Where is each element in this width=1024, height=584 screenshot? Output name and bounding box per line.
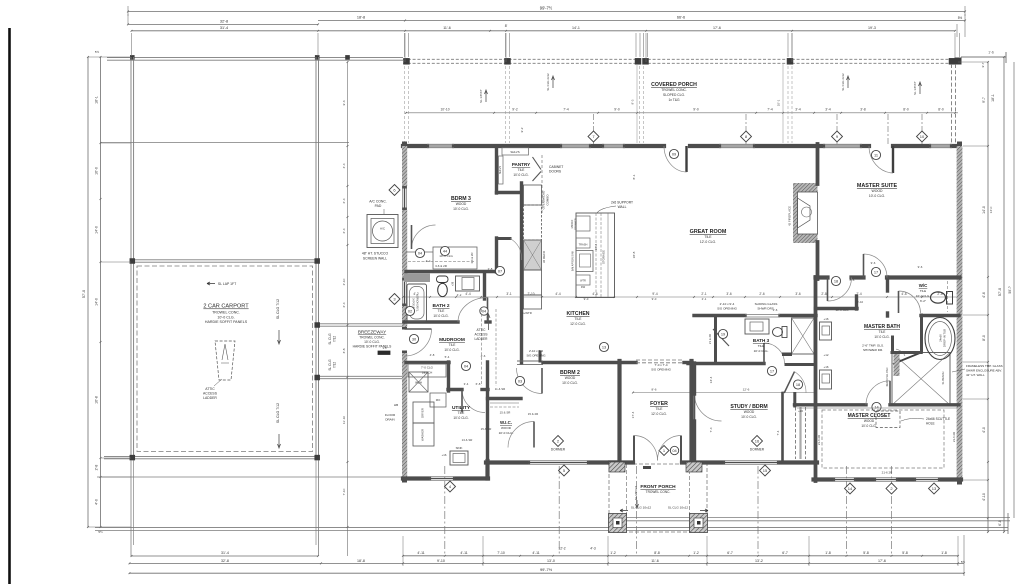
svg-text:TILE: TILE xyxy=(879,330,886,334)
svg-text:3'-4: 3'-4 xyxy=(825,108,831,112)
top dim row 2 xyxy=(318,20,405,22)
porch roof dashed edge xyxy=(403,58,958,60)
eave line B xyxy=(612,520,1010,522)
svg-text:6'-8: 6'-8 xyxy=(998,520,1002,526)
svg-text:WOOD: WOOD xyxy=(456,202,467,206)
svg-text:21 & 2R: 21 & 2R xyxy=(708,334,712,344)
left slab line xyxy=(97,476,403,478)
dash-dot window centerlines top xyxy=(593,114,595,146)
svg-text:8': 8' xyxy=(505,24,508,28)
svg-text:10'-0 CLG.: 10'-0 CLG. xyxy=(562,381,578,385)
bottom extension stubs xyxy=(402,536,404,566)
svg-text:TUB/SHOWER: TUB/SHOWER xyxy=(417,294,420,311)
svg-text:+16: +16 xyxy=(798,409,803,413)
breezeway step marker xyxy=(378,351,390,355)
carport roof top edge xyxy=(107,57,403,59)
svg-text:1'-6: 1'-6 xyxy=(988,51,994,55)
svg-text:SL CLG: SL CLG xyxy=(328,359,332,371)
svg-text:10'-0 CLG.: 10'-0 CLG. xyxy=(499,431,514,435)
svg-text:1'-8: 1'-8 xyxy=(941,551,947,555)
svg-text:3-6 & 2R: 3-6 & 2R xyxy=(435,264,448,268)
svg-text:TILE: TILE xyxy=(704,235,712,239)
svg-text:18'-8: 18'-8 xyxy=(357,559,365,563)
svg-text:19'-3: 19'-3 xyxy=(868,26,876,30)
bdrm2 door xyxy=(517,368,543,394)
svg-text:31'-4: 31'-4 xyxy=(221,551,229,555)
svg-text:3'-6: 3'-6 xyxy=(726,292,731,296)
svg-text:6'-7: 6'-7 xyxy=(727,551,733,555)
svg-text:4'-4: 4'-4 xyxy=(465,292,470,296)
svg-text:3'-1: 3'-1 xyxy=(506,292,511,296)
utility appliances xyxy=(413,402,434,423)
svg-text:4'-11: 4'-11 xyxy=(460,551,467,555)
svg-text:TILE: TILE xyxy=(575,317,583,321)
top dim row overall xyxy=(128,11,965,13)
svg-text:99'-7½: 99'-7½ xyxy=(540,6,553,11)
bath2 plumbing wall slab xyxy=(404,274,430,283)
svg-text:15 & SR: 15 & SR xyxy=(500,411,511,415)
svg-text:4'-6: 4'-6 xyxy=(982,292,986,298)
svg-text:S/G OPENING: S/G OPENING xyxy=(717,307,738,311)
svg-text:9'-0: 9'-0 xyxy=(693,108,699,112)
svg-text:FLOOR: FLOOR xyxy=(385,413,396,417)
svg-text:14'-1: 14'-1 xyxy=(572,26,580,30)
eave line D long xyxy=(95,529,1008,531)
svg-text:48" HT. STUCCO: 48" HT. STUCCO xyxy=(362,252,389,256)
svg-text:12'-2: 12'-2 xyxy=(558,547,565,551)
svg-text:2-10x5-0: 2-10x5-0 xyxy=(413,297,416,307)
svg-text:CABINET: CABINET xyxy=(549,165,563,169)
master suite west wall xyxy=(816,144,820,184)
svg-text:DORMER: DORMER xyxy=(551,448,566,452)
svg-text:32'-8: 32'-8 xyxy=(220,20,228,24)
svg-text:15 & SR: 15 & SR xyxy=(481,427,492,431)
master closet interior xyxy=(822,410,944,468)
closet door xyxy=(866,381,890,405)
svg-text:5'-8: 5'-8 xyxy=(902,551,908,555)
svg-text:4'-8: 4'-8 xyxy=(430,353,435,357)
bath2 vanity xyxy=(456,276,480,291)
interior: pantry xyxy=(495,146,498,193)
svg-text:SL 1/8"/FT: SL 1/8"/FT xyxy=(913,81,917,95)
svg-text:1+WTR: 1+WTR xyxy=(522,311,532,315)
porch attached columns xyxy=(609,462,625,472)
svg-text:42 FIREPLACE: 42 FIREPLACE xyxy=(788,206,792,226)
svg-text:18'-1: 18'-1 xyxy=(95,96,99,104)
left dim inner xyxy=(100,57,102,527)
svg-text:LADDER: LADDER xyxy=(475,337,489,341)
svg-text:9'-3: 9'-3 xyxy=(631,99,635,104)
svg-text:SL CLG 10x12: SL CLG 10x12 xyxy=(668,506,688,510)
svg-text:1.5": 1.5" xyxy=(383,346,388,350)
svg-text:8'-6: 8'-6 xyxy=(850,278,855,282)
svg-text:10'-0 CLG.: 10'-0 CLG. xyxy=(741,415,757,419)
study east wall xyxy=(781,393,784,461)
attic ladder carport xyxy=(215,341,235,380)
svg-text:57'-0: 57'-0 xyxy=(998,288,1002,296)
wc toilet xyxy=(931,292,946,303)
svg-text:11: 11 xyxy=(874,152,878,157)
svg-text:SL BENCH: SL BENCH xyxy=(941,371,945,384)
svg-text:TILE: TILE xyxy=(920,289,926,293)
window diamonds top xyxy=(588,131,599,142)
svg-text:11'-6: 11'-6 xyxy=(651,559,659,563)
svg-text:+12: +12 xyxy=(824,353,829,357)
svg-text:3'-4: 3'-4 xyxy=(795,108,801,112)
svg-text:SL LAP 1FT: SL LAP 1FT xyxy=(218,282,236,286)
svg-text:7'-4: 7'-4 xyxy=(563,108,569,112)
eave line A xyxy=(612,516,1010,518)
svg-text:9'-2: 9'-2 xyxy=(520,127,524,132)
exterior bottom: master closet xyxy=(814,477,834,481)
svg-text:12'-0 CLG.: 12'-0 CLG. xyxy=(700,240,716,244)
study top wall xyxy=(688,362,764,365)
svg-text:2'-10 x 9'-4: 2'-10 x 9'-4 xyxy=(720,302,735,306)
fireplace xyxy=(793,183,818,243)
svg-text:15: 15 xyxy=(763,468,768,473)
utility top wall xyxy=(448,388,462,391)
svg-text:WALL: WALL xyxy=(618,205,627,209)
svg-text:99'-7½: 99'-7½ xyxy=(540,567,553,572)
master closet top wall xyxy=(795,403,867,406)
wc walls xyxy=(886,277,889,291)
svg-text:14: 14 xyxy=(848,486,853,491)
hall door to great xyxy=(510,239,522,261)
svg-text:SLOPED CLG.: SLOPED CLG. xyxy=(663,93,685,97)
mudroom wd closet xyxy=(409,372,428,392)
svg-text:WDH: WDH xyxy=(415,381,422,385)
svg-text:9'-6: 9'-6 xyxy=(918,265,923,269)
svg-text:S/G OPENING: S/G OPENING xyxy=(526,354,546,358)
svg-text:B/M APRON SINK: B/M APRON SINK xyxy=(572,250,575,271)
svg-text:W/C: W/C xyxy=(919,283,928,288)
svg-text:+16: +16 xyxy=(824,365,829,369)
wic door xyxy=(508,422,534,448)
svg-text:14'-0: 14'-0 xyxy=(982,206,986,214)
svg-text:21-6 2R: 21-6 2R xyxy=(952,432,956,442)
svg-text:13'-2: 13'-2 xyxy=(755,559,763,563)
svg-text:5½: 5½ xyxy=(98,530,103,534)
svg-text:WOOD: WOOD xyxy=(501,426,512,430)
svg-text:10'-0 CLG.: 10'-0 CLG. xyxy=(874,335,889,339)
foyer step hatch xyxy=(643,466,651,469)
left dim outer xyxy=(87,57,89,527)
dormer diamonds xyxy=(553,436,564,447)
svg-text:3'-8: 3'-8 xyxy=(342,348,346,353)
bath2 east wall xyxy=(483,273,486,299)
svg-text:7/12: 7/12 xyxy=(333,362,337,368)
closet hall stub wall xyxy=(793,394,796,407)
svg-text:3-6 & 2R: 3-6 & 2R xyxy=(470,252,474,263)
top dim row 3 left xyxy=(128,23,318,25)
svg-text:11 & SR: 11 & SR xyxy=(495,387,506,391)
svg-text:10'-1: 10'-1 xyxy=(777,99,781,106)
wic walls xyxy=(488,397,522,400)
kitchen tall cabinets xyxy=(524,185,542,205)
svg-text:2'-6: 2'-6 xyxy=(759,292,764,296)
svg-text:17'-4: 17'-4 xyxy=(631,411,635,418)
svg-text:SINK: SINK xyxy=(456,446,463,450)
svg-text:COMBO: COMBO xyxy=(546,194,550,206)
svg-text:5½: 5½ xyxy=(958,16,963,20)
svg-text:9'-0: 9'-0 xyxy=(614,108,620,112)
breezeway south beam xyxy=(319,375,404,377)
mudroom attic ladder dashes xyxy=(481,309,483,386)
bath2 south wall xyxy=(404,320,458,323)
mudroom bench xyxy=(406,361,449,364)
svg-text:TILE: TILE xyxy=(458,411,465,415)
svg-text:7'-10: 7'-10 xyxy=(497,551,505,555)
svg-text:TROWEL CONC.: TROWEL CONC. xyxy=(212,311,240,315)
svg-text:21-6 2R: 21-6 2R xyxy=(882,471,894,475)
master suite bottom wall xyxy=(816,275,828,279)
svg-text:2'-4: 2'-4 xyxy=(342,302,346,307)
svg-text:18'-8: 18'-8 xyxy=(632,251,636,258)
svg-text:TRASH: TRASH xyxy=(579,243,588,247)
svg-text:59'-?: 59'-? xyxy=(1008,286,1012,293)
svg-text:10'-0 CLG: 10'-0 CLG xyxy=(835,308,849,312)
mud door ext xyxy=(405,329,432,356)
AC condenser pad xyxy=(367,215,398,248)
kitchen island xyxy=(576,213,615,298)
scuttle xyxy=(876,411,900,428)
svg-text:4'-10: 4'-10 xyxy=(982,493,986,501)
bottom diamonds xyxy=(445,481,456,492)
foyer/great sg opening xyxy=(636,359,684,361)
svg-text:14'-0: 14'-0 xyxy=(989,206,993,213)
svg-text:5½: 5½ xyxy=(95,50,100,54)
svg-text:13: 13 xyxy=(932,486,937,491)
svg-text:1'-8: 1'-8 xyxy=(825,551,831,555)
svg-text:ACCESS: ACCESS xyxy=(203,392,218,396)
ac dim line xyxy=(347,198,349,270)
svg-text:8'-0: 8'-0 xyxy=(982,335,986,341)
top extension lines xyxy=(131,33,133,56)
svg-text:WOOD: WOOD xyxy=(872,189,883,193)
svg-text:PANTRY: PANTRY xyxy=(512,162,530,167)
bottom dim row 1b carport xyxy=(132,555,319,557)
svg-text:8'-8: 8'-8 xyxy=(654,551,660,555)
svg-text:4'-3: 4'-3 xyxy=(590,547,596,551)
svg-text:5'-4: 5'-4 xyxy=(445,355,450,359)
svg-text:32'-8: 32'-8 xyxy=(221,559,229,563)
carport top posts xyxy=(130,55,135,60)
svg-text:4'-2: 4'-2 xyxy=(426,259,431,263)
svg-text:8'-6: 8'-6 xyxy=(651,388,656,392)
carport post extension lines below xyxy=(130,460,132,556)
svg-text:TROWEL CONC.: TROWEL CONC. xyxy=(359,336,385,340)
master suite entry door leaf xyxy=(892,146,894,173)
svg-text:18: 18 xyxy=(834,278,838,283)
svg-text:SL 1/8"/ FT: SL 1/8"/ FT xyxy=(634,486,638,500)
carport mid roof line xyxy=(100,142,349,144)
svg-text:2x6 SUPPORT: 2x6 SUPPORT xyxy=(611,201,633,205)
bath2 door leaf xyxy=(487,298,489,323)
svg-text:S/G OPENING: S/G OPENING xyxy=(651,368,672,372)
pantry shelves xyxy=(502,148,529,156)
svg-text:HB: HB xyxy=(394,403,398,407)
svg-text:10'-0 CLG.: 10'-0 CLG. xyxy=(754,349,769,353)
svg-text:9'-0: 9'-0 xyxy=(652,297,657,301)
svg-text:MICRO: MICRO xyxy=(570,220,574,229)
svg-text:8'-1: 8'-1 xyxy=(632,174,636,179)
porch dashed post drop lines xyxy=(404,66,406,143)
svg-text:TROWEL CONC.: TROWEL CONC. xyxy=(646,490,671,494)
svg-text:6'-2": 6'-2" xyxy=(920,299,926,303)
svg-text:W.I.C.: W.I.C. xyxy=(500,420,512,425)
centerline breezeway column xyxy=(347,62,349,556)
left wall windows xyxy=(402,186,404,210)
svg-text:BREEZEWAY: BREEZEWAY xyxy=(358,330,386,335)
svg-text:DOORS: DOORS xyxy=(549,170,562,174)
svg-text:TROWEL CONC.: TROWEL CONC. xyxy=(661,88,687,92)
foyer door markers xyxy=(659,446,669,456)
svg-text:KERDI SH. PAN: KERDI SH. PAN xyxy=(885,367,889,386)
svg-text:2'-8: 2'-8 xyxy=(821,292,826,296)
svg-text:SHOWER DR.: SHOWER DR. xyxy=(863,348,883,352)
svg-text:3'-4: 3'-4 xyxy=(464,382,469,386)
svg-text:13'-0: 13'-0 xyxy=(547,559,555,563)
svg-text:2'-10: 2'-10 xyxy=(342,278,346,285)
svg-text:SHWR ENCLOSURE ABV.: SHWR ENCLOSURE ABV. xyxy=(966,369,1002,373)
porch entry door09 xyxy=(685,146,687,172)
svg-text:10'-0 CLG.: 10'-0 CLG. xyxy=(444,348,459,352)
svg-text:13'-4: 13'-4 xyxy=(709,376,713,383)
svg-text:42" HT. WALL: 42" HT. WALL xyxy=(966,373,985,377)
bdrm3 hall walls xyxy=(497,237,510,240)
top wall windows xyxy=(427,143,454,145)
master tub niche xyxy=(920,315,923,352)
svg-text:7'-4: 7'-4 xyxy=(767,108,773,112)
exterior bottom: utility xyxy=(403,476,429,480)
svg-text:2'-4: 2'-4 xyxy=(342,228,346,233)
svg-text:14'-0: 14'-0 xyxy=(95,298,99,306)
bdrm3 door xyxy=(412,225,436,249)
svg-text:SHLVS: SHLVS xyxy=(510,150,519,154)
hall east wall xyxy=(814,277,818,481)
svg-text:WOOD: WOOD xyxy=(565,376,576,380)
svg-text:4'-11: 4'-11 xyxy=(417,551,424,555)
svg-text:9'-6: 9'-6 xyxy=(871,261,876,265)
svg-text:3'-6: 3'-6 xyxy=(795,292,800,296)
foyer west wall xyxy=(617,361,621,462)
bdrm3 closet xyxy=(406,270,497,273)
svg-text:10'-0 CLG.: 10'-0 CLG. xyxy=(453,416,468,420)
svg-text:FRAMELESS TMP. GLASS: FRAMELESS TMP. GLASS xyxy=(966,364,1003,368)
svg-text:03: 03 xyxy=(518,378,522,383)
bath2 toilet xyxy=(437,276,449,283)
wc door xyxy=(899,291,921,313)
eave line C long xyxy=(95,526,1008,528)
svg-text:1'-2: 1'-2 xyxy=(693,551,699,555)
shower master xyxy=(892,353,950,406)
svg-text:1'-2: 1'-2 xyxy=(610,551,616,555)
svg-text:1'-6: 1'-6 xyxy=(773,308,778,312)
bath2 fixtures: tub xyxy=(407,284,427,322)
svg-text:SCREEN WALL: SCREEN WALL xyxy=(363,256,387,260)
svg-text:7'-10: 7'-10 xyxy=(342,488,346,495)
dash-dot window centerlines bottom xyxy=(444,466,446,556)
exterior right wall xyxy=(957,144,962,482)
carport roof dashed outline xyxy=(137,266,313,452)
svg-text:1x T&G: 1x T&G xyxy=(668,98,680,102)
carport bottom beam xyxy=(104,455,319,457)
left wall diamonds xyxy=(389,185,400,196)
svg-text:16'-8: 16'-8 xyxy=(95,396,99,404)
svg-text:DROP-IN TUB: DROP-IN TUB xyxy=(943,329,947,347)
master bath top walls xyxy=(816,307,858,310)
study door xyxy=(695,394,722,421)
svg-text:2'-1: 2'-1 xyxy=(702,297,707,301)
porch roof east dashed edge xyxy=(951,64,953,146)
utility door xyxy=(462,390,485,413)
svg-text:7'-4: 7'-4 xyxy=(709,427,713,432)
svg-text:2'-1: 2'-1 xyxy=(701,292,706,296)
front porch columns xyxy=(609,514,627,533)
svg-text:LADDER: LADDER xyxy=(203,396,217,400)
svg-text:12'-0 CLG.: 12'-0 CLG. xyxy=(651,412,667,416)
kitchen west wall xyxy=(520,183,523,363)
svg-text:2'-4: 2'-4 xyxy=(342,198,346,203)
svg-text:HOLE: HOLE xyxy=(926,422,935,426)
svg-text:36 REFD: 36 REFD xyxy=(542,250,546,263)
bath2 door xyxy=(458,298,488,323)
svg-text:16'-0: 16'-0 xyxy=(95,167,99,175)
svg-text:9'-2: 9'-2 xyxy=(512,108,518,112)
svg-text:6'-8: 6'-8 xyxy=(476,382,481,386)
svg-text:SL CLG 10x12: SL CLG 10x12 xyxy=(631,506,651,510)
svg-text:18'-1: 18'-1 xyxy=(991,94,995,102)
svg-text:DW: DW xyxy=(581,286,586,289)
svg-text:18'-4: 18'-4 xyxy=(594,243,598,250)
exterior top wall xyxy=(403,144,427,148)
svg-text:SL CLG 2x12: SL CLG 2x12 xyxy=(841,73,845,91)
svg-text:BATH 3: BATH 3 xyxy=(753,338,770,343)
svg-text:2'-6" TMP. GLS.: 2'-6" TMP. GLS. xyxy=(862,344,884,348)
svg-text:WOOD: WOOD xyxy=(744,410,755,414)
svg-text:9'-0: 9'-0 xyxy=(584,297,589,301)
svg-text:DRAWER: DRAWER xyxy=(574,218,578,230)
great room south wall (bath3 north) xyxy=(694,314,745,317)
svg-text:10: 10 xyxy=(920,134,925,139)
svg-text:4'-0: 4'-0 xyxy=(95,499,99,505)
porch post extension lines up xyxy=(404,33,406,57)
exterior bottom: bdrm2/foyer xyxy=(486,460,528,464)
svg-text:WTR: WTR xyxy=(580,280,586,283)
svg-text:2'-8: 2'-8 xyxy=(488,267,493,271)
front door xyxy=(633,436,635,461)
carport left edge xyxy=(130,57,132,458)
bottom overall xyxy=(130,572,965,574)
svg-text:TILE: TILE xyxy=(758,344,765,348)
study closet rack xyxy=(795,407,797,459)
bdrm2 top wall xyxy=(543,361,636,364)
svg-text:4'-6: 4'-6 xyxy=(592,292,597,296)
svg-text:STORAGE: STORAGE xyxy=(602,250,606,264)
svg-text:DRAIN: DRAIN xyxy=(385,418,394,422)
porch slope arrows xyxy=(485,90,488,102)
bdrm3 east walls xyxy=(495,238,498,272)
svg-text:ATTIC: ATTIC xyxy=(477,328,487,332)
svg-text:19: 19 xyxy=(721,331,725,336)
svg-text:10'-0 CLG.: 10'-0 CLG. xyxy=(513,173,528,177)
svg-text:10'-0 CLG.: 10'-0 CLG. xyxy=(217,315,234,319)
svg-text:10'-0 CLG.: 10'-0 CLG. xyxy=(453,207,469,211)
svg-text:SL CLG 7/12: SL CLG 7/12 xyxy=(276,403,280,423)
svg-text:SL CLG 7/12: SL CLG 7/12 xyxy=(276,299,280,319)
carport slope arrow xyxy=(207,282,215,285)
svg-text:57'-0: 57'-0 xyxy=(82,290,86,298)
